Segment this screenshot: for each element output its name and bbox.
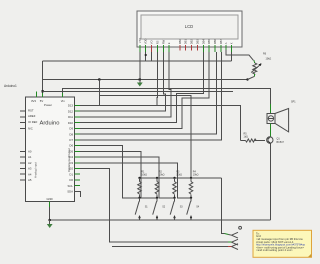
svg-text:D9: D9 bbox=[69, 127, 73, 131]
wire D3 to button S4 bbox=[80, 163, 191, 198]
ground symbol at VSS bbox=[137, 80, 143, 87]
svg-text:VSS: VSS bbox=[138, 38, 142, 44]
note sticky bbox=[253, 230, 312, 257]
svg-text:RW: RW bbox=[161, 39, 165, 44]
svg-text:D13: D13 bbox=[68, 104, 74, 108]
svg-text:A2: A2 bbox=[28, 161, 32, 165]
wire D7 to LCD DB7 bbox=[80, 52, 222, 140]
svg-text:SCL: SCL bbox=[68, 184, 74, 188]
node VSS-GND junction bbox=[139, 78, 142, 81]
LCD U2 body bbox=[137, 11, 242, 47]
svg-text:10kΩ: 10kΩ bbox=[266, 58, 272, 61]
wire speaker drive line bbox=[99, 105, 240, 140]
svg-text:D10: D10 bbox=[68, 121, 74, 125]
connector designator circle bbox=[239, 226, 242, 229]
resistor R5 bbox=[241, 133, 265, 143]
transistor Q1 bbox=[267, 137, 285, 144]
svg-text:RS: RS bbox=[155, 40, 159, 44]
wire connector pin3 bbox=[112, 246, 228, 248]
svg-text:D4: D4 bbox=[69, 155, 73, 159]
resistor R4 bbox=[189, 171, 198, 198]
svg-text:Analog Input: Analog Input bbox=[34, 162, 38, 178]
svg-text:A1: A1 bbox=[28, 155, 32, 159]
node R3 top bbox=[173, 177, 175, 179]
svg-text:10kΩ: 10kΩ bbox=[193, 174, 199, 177]
svg-text:Power: Power bbox=[44, 103, 52, 107]
trimmer R6 bbox=[251, 53, 271, 75]
svg-text:BC547: BC547 bbox=[277, 141, 285, 144]
svg-text:<and multi setting point 4 uno: <and multi setting point 4 uno> bbox=[256, 248, 293, 252]
LCD pin stubs bbox=[139, 47, 141, 52]
wire LCD K drop to bus bbox=[231, 52, 233, 61]
svg-text:D3: D3 bbox=[69, 161, 73, 165]
svg-text:GND: GND bbox=[46, 197, 52, 201]
right pin green stubs bbox=[75, 105, 81, 185]
svg-text:A: A bbox=[224, 42, 228, 44]
node S2 sense bbox=[156, 197, 158, 199]
connector P1 pin2 wiper bbox=[228, 239, 238, 245]
svg-text:DB7: DB7 bbox=[219, 39, 223, 45]
svg-text:DB6: DB6 bbox=[213, 39, 217, 45]
svg-text:DB1: DB1 bbox=[184, 39, 188, 45]
wire D8 to LCD DB6 bbox=[80, 52, 216, 134]
Arduino U1 body bbox=[26, 97, 75, 202]
svg-text:RST: RST bbox=[28, 108, 34, 112]
wire S1 to bus bbox=[139, 218, 141, 220]
wire 5V riser bbox=[42, 61, 44, 93]
node R2 top bbox=[156, 177, 158, 179]
svg-text:E: E bbox=[167, 42, 171, 44]
SDA pin hook bbox=[75, 192, 81, 198]
LCD pin labels bbox=[138, 38, 234, 45]
LCD display window bbox=[141, 15, 238, 39]
wire D13 to LCD RS bbox=[80, 52, 157, 105]
svg-text:D11: D11 bbox=[68, 115, 73, 119]
svg-text:A4: A4 bbox=[28, 172, 32, 176]
speaker LS1 bbox=[267, 101, 296, 132]
Vin green stub bbox=[62, 93, 64, 97]
svg-text:Arduino: Arduino bbox=[40, 121, 60, 127]
svg-text:VO: VO bbox=[150, 40, 154, 44]
node S3 sense bbox=[173, 197, 175, 199]
svg-text:1kΩ: 1kΩ bbox=[244, 136, 249, 139]
svg-text:D12: D12 bbox=[68, 109, 74, 113]
GND green stub bbox=[49, 202, 51, 207]
svg-text:K: K bbox=[230, 42, 234, 44]
svg-text:DB2: DB2 bbox=[190, 39, 194, 45]
wire LCD VDD drop bbox=[145, 52, 147, 61]
resistor R2 bbox=[155, 171, 164, 198]
svg-text:A5: A5 bbox=[28, 178, 32, 182]
wire D9 to LCD DB5 bbox=[80, 52, 209, 128]
wire S2 to bus bbox=[156, 218, 158, 220]
ground symbol bottom bbox=[47, 220, 53, 228]
wire D11 to LCD E bbox=[80, 52, 171, 117]
switch S2 bbox=[153, 198, 166, 219]
wire VO drop bbox=[151, 52, 153, 61]
svg-text:DB4: DB4 bbox=[201, 39, 205, 45]
wire LCD A to trimmer bbox=[226, 50, 254, 60]
resistor R1 bbox=[138, 171, 147, 198]
switch S1 bbox=[135, 198, 148, 219]
wire D6 to button S1 bbox=[80, 146, 140, 198]
svg-text:10kΩ: 10kΩ bbox=[141, 174, 147, 177]
wire trimmer to GND bus bbox=[248, 76, 255, 79]
svg-text:D7: D7 bbox=[69, 138, 73, 142]
svg-text:N/C: N/C bbox=[28, 127, 33, 131]
svg-text:IO REF: IO REF bbox=[28, 120, 38, 124]
trimmer R6 top lead bbox=[254, 60, 255, 63]
svg-text:D5: D5 bbox=[69, 149, 73, 153]
svg-text:LCD: LCD bbox=[185, 24, 193, 29]
right pin labels D13..D0 SCL SDA bbox=[67, 104, 73, 194]
wire GND bus y79.5 bbox=[43, 79, 248, 81]
wire transistor emitter to GND bus bbox=[270, 143, 272, 219]
svg-text:VDD: VDD bbox=[144, 39, 148, 45]
3V3 stub up bbox=[36, 92, 38, 98]
wire 5V feed to button resistors bbox=[99, 96, 191, 178]
svg-text:AREF: AREF bbox=[28, 114, 36, 118]
node 5V branch junction bbox=[41, 90, 44, 93]
node S1 sense bbox=[138, 197, 140, 199]
wire D12 to LCD RW bbox=[80, 52, 165, 111]
node GND drop junction bbox=[98, 78, 101, 81]
wire 5V to LCD VDD bus bbox=[43, 60, 232, 62]
wire Vin to speaker top bbox=[63, 88, 271, 106]
svg-text:A3: A3 bbox=[28, 167, 32, 171]
LCD pin inner leads bbox=[140, 45, 232, 47]
svg-text:10kΩ: 10kΩ bbox=[159, 174, 165, 177]
svg-text:10kΩ: 10kΩ bbox=[176, 174, 182, 177]
node R1 top bbox=[138, 177, 140, 179]
wire S4 to bus bbox=[190, 218, 192, 220]
svg-text:DB0: DB0 bbox=[178, 39, 182, 45]
node R4 top bbox=[190, 177, 192, 179]
wire GND drop from Arduino bbox=[49, 207, 51, 220]
left pin stubs top group bbox=[20, 111, 26, 128]
wire resistor top bus bbox=[140, 177, 222, 179]
node S4 sense bbox=[190, 197, 192, 199]
wire 5V branch rail bbox=[43, 90, 233, 92]
node VDD junction bbox=[145, 54, 147, 56]
svg-text:D8: D8 bbox=[69, 132, 73, 136]
svg-text:Arduino1: Arduino1 bbox=[4, 84, 17, 88]
left pin stubs A0-A5 bbox=[20, 151, 26, 180]
switch S3 bbox=[170, 198, 183, 219]
wire speaker to transistor collector bbox=[270, 123, 272, 136]
wire D5 to button S2 bbox=[80, 151, 157, 198]
wire resistor bus to connector top bbox=[222, 178, 225, 234]
svg-text:DB5: DB5 bbox=[207, 39, 211, 45]
node GND junction bbox=[48, 219, 51, 222]
svg-text:A0: A0 bbox=[28, 149, 32, 153]
wire D4 to button S3 bbox=[80, 157, 175, 198]
wire S3 to bus bbox=[174, 218, 176, 220]
svg-text:D2: D2 bbox=[69, 167, 73, 171]
svg-text:SP1: SP1 bbox=[291, 101, 296, 104]
wire D10 to LCD DB4 bbox=[80, 52, 203, 123]
svg-text:SDA: SDA bbox=[67, 190, 73, 194]
svg-text:3V3: 3V3 bbox=[31, 99, 36, 103]
switch S4 bbox=[187, 198, 200, 219]
wire switch common bus bbox=[50, 219, 271, 221]
svg-text:Vin: Vin bbox=[61, 99, 65, 103]
svg-text:D0: D0 bbox=[69, 178, 73, 182]
connector P1 pin3 bbox=[228, 244, 238, 250]
resistor R3 bbox=[173, 171, 182, 198]
svg-text:D1: D1 bbox=[69, 172, 73, 176]
svg-text:DB3: DB3 bbox=[195, 39, 199, 45]
trimmer R6 bottom lead bbox=[253, 74, 256, 76]
svg-text:5V: 5V bbox=[40, 99, 44, 103]
left analog pin labels A0-A5 bbox=[28, 149, 32, 182]
connector P1 pin1 bbox=[225, 232, 239, 238]
svg-text:D6: D6 bbox=[69, 144, 73, 148]
left pin labels RST AREF IOREF N/C bbox=[28, 108, 38, 130]
wire LCD VSS drop bbox=[139, 52, 141, 80]
wire D2 to connector wiper bbox=[80, 169, 228, 243]
Power pin labels bbox=[31, 99, 65, 107]
5V green stub bbox=[42, 93, 44, 97]
wire GND drop to jog band bbox=[98, 80, 100, 106]
